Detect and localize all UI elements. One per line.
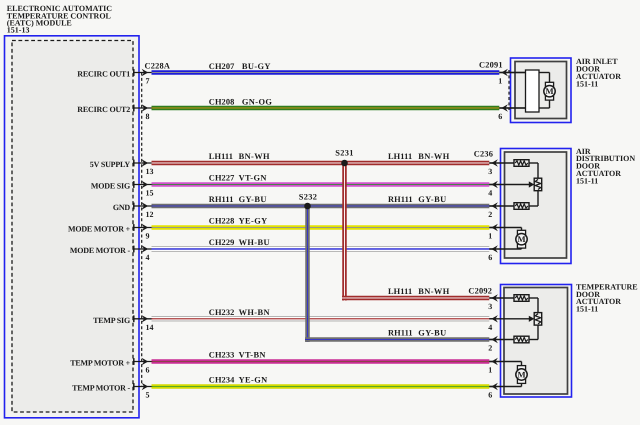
motor M (temperature) bbox=[516, 366, 527, 384]
svg-text:6: 6 bbox=[146, 366, 150, 375]
svg-text:6: 6 bbox=[488, 253, 492, 262]
svg-text:2: 2 bbox=[488, 344, 492, 353]
svg-text:LH111: LH111 bbox=[209, 152, 233, 161]
pin 4 arrow bbox=[488, 315, 498, 332]
pin 1 arrow bbox=[488, 224, 498, 241]
module pin 4 MODE MOTOR - bbox=[70, 245, 153, 262]
air inlet door actuator box bbox=[511, 58, 572, 123]
svg-text:GY-BU: GY-BU bbox=[418, 195, 446, 204]
svg-text:C236: C236 bbox=[474, 150, 493, 159]
module pin 9 MODE MOTOR + bbox=[68, 224, 153, 241]
svg-text:1: 1 bbox=[498, 77, 502, 86]
temperature door actuator label bbox=[576, 282, 638, 313]
splice S231 bbox=[335, 149, 353, 167]
label LH111 BN-WH left bbox=[209, 152, 270, 161]
svg-text:12: 12 bbox=[146, 210, 154, 219]
svg-text:YE-GN: YE-GN bbox=[239, 376, 268, 385]
potentiometer wiper (C236 pin 4) bbox=[529, 178, 542, 191]
svg-text:CH227: CH227 bbox=[209, 174, 235, 183]
svg-text:BN-WH: BN-WH bbox=[418, 152, 449, 161]
svg-text:CH233: CH233 bbox=[209, 351, 235, 360]
label CH229 WH-BU bbox=[209, 238, 270, 247]
svg-text:MODE MOTOR -: MODE MOTOR - bbox=[70, 246, 131, 255]
svg-text:GN-OG: GN-OG bbox=[242, 98, 272, 107]
pin 4 arrow bbox=[488, 181, 498, 198]
svg-text:GND: GND bbox=[113, 203, 131, 212]
svg-text:MODE MOTOR +: MODE MOTOR + bbox=[68, 225, 131, 234]
wire CH229 WH-BU bbox=[152, 246, 490, 252]
label CH234 YE-GN bbox=[209, 376, 268, 385]
svg-text:TEMP SIG: TEMP SIG bbox=[93, 316, 130, 325]
label CH227 VT-GN bbox=[209, 174, 267, 183]
module pin 6 TEMP MOTOR + bbox=[70, 358, 152, 375]
svg-text:151-11: 151-11 bbox=[576, 80, 598, 89]
svg-text:13: 13 bbox=[146, 167, 154, 176]
label CH232 WH-BN bbox=[209, 308, 270, 317]
wire CH234 YE-GN bbox=[152, 384, 490, 389]
svg-text:M: M bbox=[517, 369, 525, 379]
pin 6 arrow bbox=[498, 104, 525, 121]
label LH111 BN-WH right bbox=[388, 152, 450, 161]
svg-text:LH111: LH111 bbox=[388, 152, 412, 161]
pin 3 arrow bbox=[488, 294, 498, 311]
wire LH111 BN-WH (5V supply) bbox=[152, 161, 490, 166]
wire CH227 VT-GN bbox=[152, 182, 490, 187]
label LH111 BN-WH (branch) bbox=[388, 287, 450, 296]
svg-text:2: 2 bbox=[488, 210, 492, 219]
resistor (position sensor upper, C236 pin 3) bbox=[514, 160, 529, 167]
svg-text:14: 14 bbox=[146, 323, 154, 332]
air distribution internal wiring bbox=[489, 163, 538, 249]
module pin 15 MODE SIG bbox=[91, 181, 154, 198]
EATC module box (blue outline) bbox=[5, 36, 140, 418]
svg-text:4: 4 bbox=[488, 189, 492, 198]
pin 2 arrow bbox=[488, 336, 498, 353]
wire CH207 BU-GY bbox=[152, 70, 500, 75]
air inlet internal wiring bbox=[499, 73, 550, 109]
pin 1 arrow bbox=[488, 358, 498, 375]
potentiometer wiper (C2092 pin 4) bbox=[529, 313, 542, 326]
svg-text:CH232: CH232 bbox=[209, 308, 235, 317]
resistor (position sensor upper, C2092 pin 3) bbox=[514, 295, 529, 302]
connector C228A dashed line bbox=[141, 73, 143, 387]
svg-text:YE-GY: YE-GY bbox=[239, 217, 268, 226]
svg-text:CH234: CH234 bbox=[209, 376, 235, 385]
EATC module title bbox=[7, 4, 113, 35]
pin 6 arrow bbox=[488, 383, 498, 400]
motor M (air inlet) bbox=[544, 82, 555, 100]
svg-text:BN-WH: BN-WH bbox=[418, 287, 449, 296]
svg-text:S232: S232 bbox=[299, 192, 317, 201]
wire RH111 GY-BU branch vertical from S232 bbox=[305, 206, 310, 342]
module pin 13 5V SUPPLY bbox=[90, 159, 154, 176]
svg-text:S231: S231 bbox=[335, 149, 353, 158]
label RH111 GY-BU right bbox=[388, 195, 447, 204]
svg-text:3: 3 bbox=[488, 167, 492, 176]
svg-text:3: 3 bbox=[488, 302, 492, 311]
svg-text:VT-GN: VT-GN bbox=[239, 174, 267, 183]
svg-text:1: 1 bbox=[488, 366, 492, 375]
resistor (position sensor lower, C236 pin 2) bbox=[514, 203, 529, 210]
svg-text:RECIRC OUT2: RECIRC OUT2 bbox=[77, 105, 130, 114]
svg-text:4: 4 bbox=[488, 323, 492, 332]
temperature door actuator box bbox=[501, 285, 572, 398]
pin 2 arrow bbox=[488, 202, 498, 219]
label RH111 GY-BU left bbox=[209, 195, 267, 204]
motor M (air distribution) bbox=[516, 230, 527, 248]
wire LH111 BN-WH branch horizontal to C2092 pin 3 bbox=[342, 296, 489, 301]
svg-text:GY-BU: GY-BU bbox=[418, 328, 446, 337]
svg-text:M: M bbox=[517, 234, 525, 244]
svg-text:15: 15 bbox=[146, 189, 154, 198]
svg-text:9: 9 bbox=[146, 232, 150, 241]
svg-text:BN-WH: BN-WH bbox=[239, 152, 270, 161]
svg-text:7: 7 bbox=[146, 77, 150, 86]
svg-text:C2092: C2092 bbox=[468, 287, 492, 296]
module pin 12 GND bbox=[113, 202, 154, 219]
svg-text:5: 5 bbox=[146, 391, 150, 400]
svg-text:GY-BU: GY-BU bbox=[239, 195, 267, 204]
svg-text:CH207: CH207 bbox=[209, 62, 235, 71]
EATC module inner dashed border bbox=[12, 41, 133, 413]
splice S232 bbox=[299, 192, 317, 209]
svg-text:TEMP MOTOR +: TEMP MOTOR + bbox=[70, 359, 130, 368]
svg-text:151-13: 151-13 bbox=[7, 26, 30, 35]
svg-text:RECIRC OUT1: RECIRC OUT1 bbox=[77, 70, 130, 79]
pin 6 arrow bbox=[488, 245, 498, 262]
svg-text:C228A: C228A bbox=[145, 62, 171, 71]
svg-text:4: 4 bbox=[146, 253, 150, 262]
label CH233 VT-BN bbox=[209, 351, 266, 360]
wire LH111 BN-WH branch vertical from S231 bbox=[342, 163, 347, 301]
module pin 14 TEMP SIG bbox=[93, 315, 153, 332]
svg-text:TEMP MOTOR -: TEMP MOTOR - bbox=[72, 384, 130, 393]
svg-text:M: M bbox=[545, 86, 553, 96]
wire CH208 GN-OG bbox=[152, 106, 500, 111]
air distribution door actuator box bbox=[501, 149, 572, 264]
svg-text:CH229: CH229 bbox=[209, 238, 235, 247]
svg-text:6: 6 bbox=[488, 391, 492, 400]
wire CH228 YE-GY bbox=[152, 225, 490, 230]
air inlet door flap (white rect) bbox=[526, 70, 540, 112]
svg-text:CH208: CH208 bbox=[209, 98, 235, 107]
svg-text:RH111: RH111 bbox=[388, 195, 413, 204]
svg-text:BU-GY: BU-GY bbox=[242, 62, 271, 71]
svg-text:5V SUPPLY: 5V SUPPLY bbox=[90, 160, 131, 169]
svg-text:RH111: RH111 bbox=[209, 195, 234, 204]
module pin 5 TEMP MOTOR - bbox=[72, 383, 152, 400]
svg-text:8: 8 bbox=[146, 112, 150, 121]
resistor (position sensor lower, C2092 pin 2) bbox=[514, 336, 529, 343]
svg-text:LH111: LH111 bbox=[388, 287, 412, 296]
svg-text:151-11: 151-11 bbox=[576, 176, 598, 185]
svg-text:151-11: 151-11 bbox=[576, 305, 598, 314]
air inlet door actuator label bbox=[576, 57, 621, 89]
label CH208 GN-OG bbox=[209, 98, 273, 107]
svg-text:C2091: C2091 bbox=[479, 61, 503, 70]
svg-text:VT-BN: VT-BN bbox=[239, 351, 266, 360]
connector C2091 dashed line bbox=[508, 70, 510, 110]
svg-text:1: 1 bbox=[488, 232, 492, 241]
svg-text:WH-BU: WH-BU bbox=[239, 238, 270, 247]
svg-text:WH-BN: WH-BN bbox=[239, 308, 270, 317]
svg-text:6: 6 bbox=[498, 112, 502, 121]
svg-text:MODE SIG: MODE SIG bbox=[91, 182, 130, 191]
air distribution door actuator label bbox=[576, 147, 635, 186]
wire RH111 GY-BU branch horizontal to C2092 pin 2 bbox=[305, 337, 489, 342]
pin 1 arrow bbox=[498, 69, 525, 86]
label CH228 YE-GY bbox=[209, 217, 268, 226]
wire RH111 GY-BU (ground) bbox=[152, 204, 490, 209]
label RH111 GY-BU (branch) bbox=[388, 328, 447, 337]
module pin 8 RECIRC OUT2 bbox=[77, 104, 152, 121]
svg-text:RH111: RH111 bbox=[388, 328, 413, 337]
wire CH233 VT-BN bbox=[152, 359, 490, 364]
temperature actuator internal wiring bbox=[489, 298, 538, 387]
svg-text:CH228: CH228 bbox=[209, 217, 235, 226]
pin 3 arrow bbox=[488, 159, 498, 176]
module pin 7 RECIRC OUT1 bbox=[77, 69, 152, 86]
label CH207 BU-GY bbox=[209, 62, 271, 71]
wire CH232 WH-BN bbox=[152, 316, 490, 321]
